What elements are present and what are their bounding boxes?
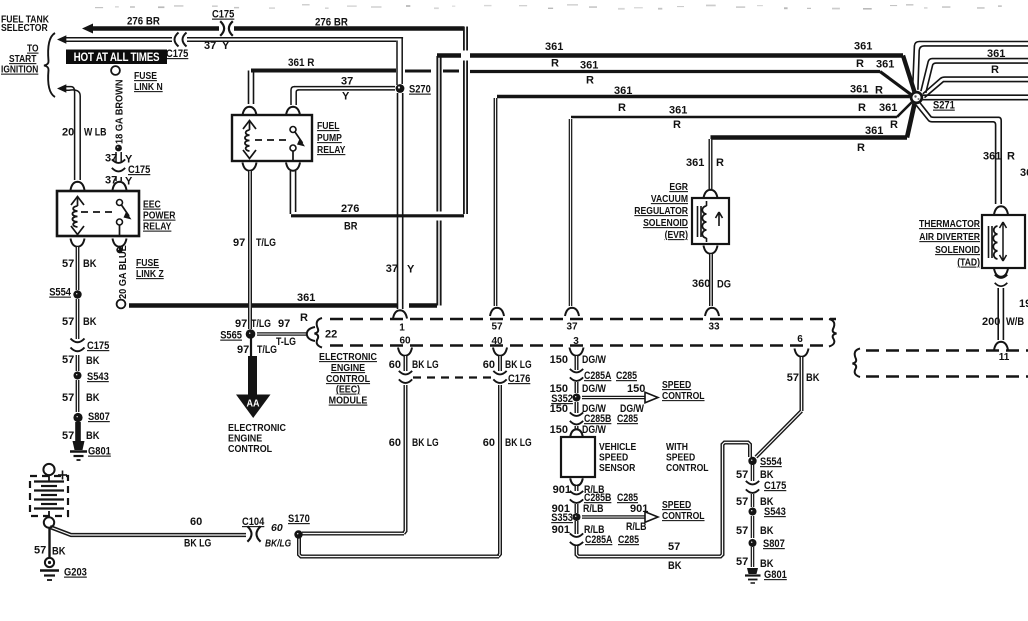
- svg-text:RELAY: RELAY: [143, 221, 172, 233]
- splice S543 (right): [749, 508, 757, 516]
- svg-text:97: 97: [235, 318, 247, 330]
- svg-text:C176: C176: [508, 373, 531, 385]
- ground G801 (right): [747, 568, 758, 574]
- svg-text:60: 60: [271, 522, 283, 534]
- splice S353: [573, 513, 581, 521]
- svg-text:R: R: [1007, 151, 1015, 163]
- splice S554 (right): [748, 457, 756, 465]
- EEC pin 3: [570, 348, 584, 356]
- EEC pin 40: [493, 348, 507, 356]
- wire 57 BK S554 to C175: [751, 465, 755, 481]
- svg-text:60: 60: [389, 437, 401, 449]
- wire 60 BK LG S170 to pin 60 riser: [302, 532, 404, 536]
- svg-text:SOLENOID: SOLENOID: [643, 217, 688, 229]
- battery cells: [34, 480, 64, 482]
- wire 150 DG/W from EEC pin 3: [575, 356, 579, 370]
- svg-text:361: 361: [669, 105, 687, 117]
- fuse link Z below EEC power relay switch: [113, 239, 127, 247]
- svg-text:R: R: [586, 75, 594, 87]
- svg-text:361: 361: [850, 84, 868, 96]
- svg-text:361: 361: [686, 157, 704, 169]
- svg-text:R: R: [858, 102, 866, 114]
- svg-text:C175: C175: [764, 480, 787, 492]
- svg-text:S807: S807: [763, 538, 785, 550]
- svg-text:361: 361: [865, 125, 883, 137]
- fuse link N circle: [111, 66, 120, 75]
- svg-text:T/LG: T/LG: [257, 344, 277, 356]
- svg-text:R: R: [618, 102, 626, 114]
- svg-text:360: 360: [692, 278, 710, 290]
- svg-text:S543: S543: [764, 506, 786, 518]
- svg-text:IGNITION: IGNITION: [1, 64, 38, 76]
- wire 20 W LB to start ignition (arrow): [57, 84, 66, 93]
- EEC pin 1: [393, 310, 407, 318]
- off-page arrow AA electronic engine control: [248, 356, 257, 396]
- svg-text:97: 97: [233, 237, 245, 249]
- wire 37 Y into EEC power relay: [115, 152, 117, 163]
- svg-text:R: R: [875, 85, 883, 97]
- EVR coil and core: [697, 206, 699, 237]
- svg-text:Y: Y: [407, 264, 415, 276]
- wire 57 BK below EEC power relay: [71, 239, 85, 247]
- svg-text:Y: Y: [342, 91, 350, 103]
- svg-text:BK: BK: [760, 525, 774, 537]
- arrow 901 R/LB to speed control: [582, 515, 645, 518]
- svg-text:C175: C175: [128, 164, 151, 176]
- wire 60 BK LG S170 down to pin 40 riser: [299, 538, 499, 557]
- splice S554 (left): [73, 290, 81, 298]
- svg-text:S543: S543: [87, 371, 109, 383]
- wire 361 R power bus: [129, 303, 397, 308]
- wire 57 BK S807 to G801: [75, 422, 81, 441]
- wire 360 DG EVR to EEC pin 33: [709, 254, 713, 306]
- EEC pin 37: [565, 308, 579, 316]
- svg-text:6: 6: [797, 334, 803, 345]
- svg-text:CONTROL: CONTROL: [662, 510, 705, 522]
- splice S270: [396, 84, 405, 93]
- svg-text:S270: S270: [409, 84, 431, 96]
- wire 57 BK S807 to G801: [751, 547, 755, 567]
- wire 276 BR return riser: [463, 27, 468, 215]
- svg-text:57: 57: [736, 525, 748, 537]
- svg-text:FUEL: FUEL: [317, 120, 340, 132]
- svg-text:R: R: [551, 58, 559, 70]
- svg-text:150: 150: [627, 383, 645, 395]
- svg-text:LINK N: LINK N: [134, 81, 163, 93]
- svg-text:(EVR): (EVR): [665, 229, 688, 241]
- wire 57 BK C175 to S543: [751, 494, 755, 507]
- svg-text:37: 37: [204, 40, 216, 52]
- brace TO START IGNITION: [44, 33, 55, 97]
- svg-text:C175: C175: [212, 9, 235, 21]
- svg-text:97: 97: [278, 318, 290, 330]
- svg-text:57: 57: [787, 372, 799, 384]
- svg-text:VACUUM: VACUUM: [651, 193, 688, 205]
- connector C175 on 37 Y (double arc): [175, 33, 179, 47]
- wire 57 BK S543 to S807: [751, 516, 755, 538]
- connector C285A (lower): [570, 533, 583, 537]
- svg-text:60: 60: [389, 359, 401, 371]
- splice S352: [573, 394, 581, 402]
- wire 57 BK S554 to C175: [76, 299, 80, 339]
- fuel pump relay coil: [243, 121, 256, 130]
- svg-text:150: 150: [550, 424, 568, 436]
- wire 60 BK LG from EEC pin 60: [404, 356, 408, 371]
- svg-text:33: 33: [708, 322, 720, 333]
- relay EEC POWER RELAY box: [57, 191, 139, 236]
- svg-text:G801: G801: [764, 569, 787, 581]
- splice S807 (right): [749, 539, 757, 547]
- ground G801 (left): [73, 441, 85, 450]
- EEC pin 33: [705, 308, 719, 316]
- svg-text:T/LG: T/LG: [251, 318, 271, 330]
- svg-text:20 GA BLUE: 20 GA BLUE: [118, 245, 129, 299]
- wire 276 BR return horizontal to fuel pump relay: [291, 214, 464, 217]
- arch above fuel pump relay switch pin: [286, 107, 300, 115]
- svg-text:T-LG: T-LG: [276, 336, 296, 348]
- svg-text:BK LG: BK LG: [505, 437, 532, 449]
- EEC module left bracket pin 22: [315, 318, 323, 348]
- svg-text:S170: S170: [288, 513, 310, 525]
- svg-text:BK LG: BK LG: [412, 437, 439, 449]
- svg-text:BK: BK: [52, 546, 66, 558]
- wire 200 W/B TAD to EEC pin 11: [997, 288, 999, 340]
- EEC pin 57: [490, 308, 504, 316]
- svg-text:REGULATOR: REGULATOR: [634, 205, 688, 217]
- EEC pin 6: [795, 349, 809, 357]
- wire from fuel pump relay switch to 276 BR return: [289, 171, 291, 214]
- wire 60 BK LG pin 40 riser: [498, 385, 500, 557]
- wire 361 R to EVR solenoid: [711, 135, 908, 140]
- wire 361 R riser (bus to top): [436, 56, 441, 306]
- svg-text:57: 57: [736, 469, 748, 481]
- EEC pin 60: [398, 348, 412, 356]
- svg-text:HOT AT ALL TIMES: HOT AT ALL TIMES: [74, 51, 160, 64]
- EEC power relay coil: [71, 197, 84, 206]
- svg-text:150: 150: [550, 403, 568, 415]
- svg-text:S353: S353: [551, 512, 573, 524]
- arch below TAD: [994, 269, 1008, 277]
- svg-text:901: 901: [552, 524, 570, 536]
- svg-text:BK LG: BK LG: [412, 359, 439, 371]
- wire 361 R from fuel pump relay to S271: [251, 69, 396, 73]
- EEC pin 11: [994, 342, 1008, 350]
- EEC power relay switch: [117, 200, 123, 206]
- svg-text:AA: AA: [247, 398, 260, 410]
- connector C176 on pin 60 wire: [399, 371, 412, 375]
- svg-text:THERMACTOR: THERMACTOR: [919, 218, 980, 230]
- svg-text:37: 37: [566, 322, 578, 333]
- svg-text:BK: BK: [83, 316, 97, 328]
- svg-text:BK: BK: [806, 372, 820, 384]
- svg-text:57: 57: [668, 541, 680, 553]
- svg-text:361: 361: [297, 292, 315, 304]
- wire 37 Y hot at all times: [57, 35, 66, 44]
- wire 57 BK ground run to S554: [577, 443, 751, 557]
- wire 97 T/LG from S565 down to AA: [250, 338, 252, 357]
- svg-text:361: 361: [983, 151, 1001, 163]
- connector C176 on pin 40 wire: [493, 371, 506, 375]
- svg-text:AIR DIVERTER: AIR DIVERTER: [919, 231, 980, 243]
- svg-text:60: 60: [483, 359, 495, 371]
- wire 37 Y horizontal to S270: [294, 86, 395, 88]
- svg-text:R: R: [890, 119, 898, 131]
- ground G203: [45, 558, 54, 567]
- arch above fuel pump relay coil pin: [243, 107, 257, 115]
- svg-text:18 GA BROWN: 18 GA BROWN: [114, 79, 125, 144]
- connector C175 on 276 BR: [220, 21, 224, 36]
- wire 37 Y from S270 down to EEC pin 1: [397, 93, 399, 309]
- svg-text:BR: BR: [344, 221, 358, 233]
- svg-text:PUMP: PUMP: [317, 132, 342, 144]
- splice S170: [294, 530, 302, 538]
- svg-text:BK: BK: [86, 355, 100, 367]
- svg-text:57: 57: [491, 322, 503, 333]
- svg-text:57: 57: [34, 545, 46, 557]
- svg-text:57: 57: [62, 258, 74, 270]
- sensor VEHICLE SPEED SENSOR box: [561, 437, 595, 477]
- relay FUEL PUMP RELAY box: [232, 115, 312, 161]
- svg-text:T/LG: T/LG: [256, 237, 276, 249]
- svg-text:S554: S554: [760, 456, 782, 468]
- svg-text:276: 276: [341, 203, 359, 215]
- svg-text:W/B: W/B: [1006, 316, 1024, 328]
- svg-text:S807: S807: [88, 411, 110, 423]
- svg-text:R: R: [300, 312, 308, 324]
- svg-text:57: 57: [736, 496, 748, 508]
- TAD coil and core: [988, 226, 990, 258]
- svg-text:RELAY: RELAY: [317, 144, 346, 156]
- riser from 361 R down to fuel pump relay coil: [248, 71, 250, 105]
- battery component (dashed box): [43, 464, 54, 475]
- wire 361 R from S271 to right (branch D): [922, 94, 1028, 96]
- wire 361 R to EEC pin 37: [571, 116, 897, 119]
- splice S543 (left): [74, 372, 82, 380]
- svg-text:901: 901: [630, 503, 648, 515]
- arch below fuel pump relay switch pin: [286, 163, 300, 171]
- svg-text:R: R: [716, 157, 724, 169]
- svg-text:361: 361: [545, 41, 563, 53]
- svg-text:361: 361: [879, 102, 897, 114]
- svg-text:DG/W: DG/W: [582, 424, 606, 436]
- svg-text:BK LG: BK LG: [184, 538, 212, 550]
- wire 361 R (top run to S271): [437, 53, 903, 57]
- svg-text:276 BR: 276 BR: [127, 16, 160, 28]
- arch below fuel pump relay coil pin: [243, 163, 257, 171]
- svg-text:C175: C175: [87, 340, 110, 352]
- EEC module right bracket: [829, 319, 837, 347]
- wire 361 R from S271 to TAD (branch E): [920, 103, 1001, 204]
- arch above EVR: [704, 190, 718, 198]
- svg-text:MODULE: MODULE: [329, 395, 368, 407]
- svg-text:C285: C285: [616, 370, 637, 382]
- wire 361 R from S271 to right (branch B): [921, 59, 1028, 92]
- svg-text:(TAD): (TAD): [957, 257, 980, 269]
- connector C175 (right chain): [746, 481, 759, 485]
- wire 60 BK LG pin 60 riser: [404, 385, 406, 534]
- svg-text:DG/W: DG/W: [582, 354, 606, 366]
- svg-text:BK: BK: [668, 560, 682, 572]
- svg-text:LINK Z: LINK Z: [136, 268, 164, 280]
- wire 57 BK S543 to S807: [76, 380, 80, 412]
- fuel pump relay link (dashed): [255, 139, 288, 141]
- svg-text:CONTROL: CONTROL: [228, 443, 272, 455]
- arch above EEC power relay left pin: [71, 182, 85, 190]
- connector C175 (left chain): [71, 339, 85, 343]
- corner of 37 Y wire turning down to S270: [396, 41, 398, 86]
- wire 361 R from S271 to right (branch C): [923, 77, 1028, 94]
- svg-text:C104: C104: [242, 516, 265, 528]
- svg-text:97: 97: [237, 344, 249, 356]
- svg-text:C285A: C285A: [585, 534, 612, 546]
- svg-text:S271: S271: [933, 100, 955, 112]
- connector C104: [247, 526, 251, 541]
- svg-text:276 BR: 276 BR: [315, 17, 348, 29]
- svg-text:3: 3: [573, 336, 579, 347]
- battery terminal tick: [58, 474, 67, 476]
- svg-text:C175: C175: [166, 48, 189, 60]
- svg-text:S565: S565: [220, 330, 242, 342]
- svg-text:R: R: [857, 142, 865, 154]
- svg-text:40: 40: [491, 336, 503, 347]
- splice dot below fuse link N: [115, 145, 122, 152]
- svg-text:BK: BK: [83, 258, 97, 270]
- svg-text:R: R: [673, 119, 681, 131]
- svg-text:R/LB: R/LB: [583, 503, 604, 515]
- svg-text:57: 57: [736, 556, 748, 568]
- EEC module continuation dashed box left bracket: [853, 349, 861, 378]
- svg-text:DG/W: DG/W: [582, 383, 606, 395]
- wire 150 DG/W to S352: [575, 382, 579, 393]
- wire 150 DG/W C285B to VSS: [575, 426, 579, 430]
- svg-text:C285: C285: [618, 534, 639, 546]
- svg-text:EGR: EGR: [669, 181, 688, 193]
- wire 37 Y riser above fuel pump relay switch: [291, 87, 295, 105]
- svg-text:C285: C285: [617, 413, 638, 425]
- connector C176 dashed link: [413, 376, 493, 378]
- svg-text:1: 1: [399, 323, 405, 334]
- svg-text:G801: G801: [88, 446, 111, 458]
- svg-text:60: 60: [483, 437, 495, 449]
- svg-text:361 R: 361 R: [288, 58, 315, 70]
- splice S565: [246, 329, 256, 339]
- wire 361 R to EEC pin 57: [497, 95, 912, 98]
- svg-text:BK: BK: [86, 430, 100, 442]
- connector C285B (lower): [570, 491, 583, 495]
- arch above TAD: [994, 206, 1008, 214]
- svg-text:SOLENOID: SOLENOID: [935, 244, 980, 256]
- arch above EEC power relay right pin: [113, 182, 127, 190]
- arch below EVR: [704, 246, 718, 254]
- EEC module dashed box bottom edge: [330, 344, 829, 347]
- svg-text:57: 57: [62, 392, 74, 404]
- svg-text:SENSOR: SENSOR: [599, 462, 635, 474]
- svg-text:CONTROL: CONTROL: [666, 462, 709, 474]
- splice S271: [910, 91, 923, 104]
- svg-text:60: 60: [190, 516, 202, 528]
- svg-text:361: 361: [614, 85, 632, 97]
- svg-text:57: 57: [62, 316, 74, 328]
- svg-text:11: 11: [999, 352, 1010, 363]
- wire 150 DG/W S352 to C285B: [575, 402, 579, 413]
- arrow 150 DG/W to speed control: [582, 396, 645, 399]
- svg-text:W LB: W LB: [84, 127, 106, 139]
- svg-text:19: 19: [1019, 298, 1028, 310]
- svg-text:CONTROL: CONTROL: [662, 390, 705, 402]
- wire 60 BK LG battery to C104: [50, 527, 246, 535]
- svg-text:361: 361: [876, 59, 894, 71]
- EEC power relay link (dashed): [81, 211, 114, 213]
- scan noise top edge: [95, 4, 1002, 10]
- solenoid EGR VACUUM REGULATOR (EVR) box: [692, 198, 729, 244]
- svg-text:BK: BK: [86, 392, 100, 404]
- svg-text:DG: DG: [717, 279, 731, 291]
- solenoid THERMACTOR AIR DIVERTER (TAD) box: [982, 215, 1025, 268]
- svg-text:G203: G203: [64, 567, 87, 579]
- wire 97 T-LG from S565 to EEC pin 22: [257, 332, 306, 336]
- EEC module continuation top edge: [866, 349, 1028, 352]
- svg-text:361: 361: [854, 41, 872, 53]
- svg-text:37: 37: [341, 76, 353, 88]
- wire 97 T/LG fuel pump relay coil to S565: [248, 171, 252, 329]
- svg-text:22: 22: [325, 329, 337, 341]
- svg-text:S554: S554: [49, 287, 71, 299]
- svg-text:SELECTOR: SELECTOR: [1, 22, 48, 34]
- fuel pump relay switch: [290, 127, 296, 133]
- wire 57 BK diagonal pin 6 to S554: [756, 411, 802, 457]
- wire 57 BK battery to G203: [48, 528, 50, 557]
- wire 901 R/LB below VSS: [570, 478, 583, 485]
- svg-text:57: 57: [62, 354, 74, 366]
- wire 57 BK C175 to S543: [76, 355, 80, 371]
- svg-text:37: 37: [105, 153, 117, 165]
- splice S807 (left): [73, 413, 82, 422]
- wire 361 R from S271 to right (branch A): [913, 42, 1028, 90]
- svg-text:57: 57: [62, 430, 74, 442]
- banner HOT AT ALL TIMES: [66, 50, 167, 65]
- connector C285B (upper): [570, 412, 583, 416]
- svg-text:361: 361: [580, 60, 598, 72]
- wire 60 BK LG from EEC pin 40: [498, 356, 502, 371]
- wire 901 R/LB S353 to C285A: [575, 521, 579, 534]
- svg-text:200: 200: [982, 316, 1000, 328]
- svg-text:901: 901: [553, 484, 571, 496]
- wire 276 BR to fuel tank selector: [82, 24, 93, 34]
- svg-text:20: 20: [62, 127, 74, 139]
- svg-text:R: R: [991, 64, 999, 76]
- EEC module dashed box top edge: [330, 318, 836, 321]
- wire 57 BK from EEC pin 6: [800, 357, 804, 411]
- svg-text:C285A: C285A: [584, 370, 611, 382]
- svg-text:R: R: [856, 58, 864, 70]
- wire 901 R/LB to S353: [575, 504, 579, 513]
- EEC module continuation bottom edge: [866, 375, 1028, 378]
- svg-text:150: 150: [550, 354, 568, 366]
- connector C285A (upper): [570, 369, 583, 373]
- svg-text:37: 37: [386, 263, 398, 275]
- svg-text:R/LB: R/LB: [626, 521, 647, 533]
- svg-text:60: 60: [399, 336, 411, 347]
- svg-text:Y: Y: [222, 40, 230, 52]
- svg-text:36: 36: [1020, 167, 1028, 179]
- svg-text:BK/LG: BK/LG: [265, 538, 292, 550]
- svg-text:BK LG: BK LG: [505, 359, 532, 371]
